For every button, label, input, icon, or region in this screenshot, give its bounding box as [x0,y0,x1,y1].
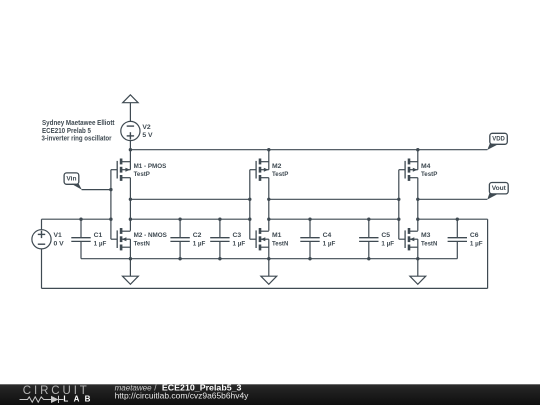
wire: NMOS source/body column to ground rail (stage 2) [268,239,270,259]
wire: gate column (stage 3) [398,170,400,240]
label: C1 [94,232,103,239]
svg-text:1 µF: 1 µF [381,240,394,247]
svg-text:5 V: 5 V [142,132,153,139]
junction: M4 source on VDD rail [416,148,419,151]
junction: upper wire at gate of stage 3 [397,198,400,201]
junction: C3 on source rail [218,257,221,260]
svg-text:CIRCUIT: CIRCUIT [23,385,90,397]
junction: stage1 on source rail [129,257,132,260]
transistor M2 - NMOS (NMOS stage 1) [111,228,130,250]
label: C5 value 1 uF [381,240,394,247]
label: V2 value 5 V [142,132,153,139]
power flag arrow above V2 [123,95,138,103]
voltage source V2 [121,121,140,140]
label: M4 [421,163,431,170]
junction: lower wire at gate of stage 2 [248,218,251,221]
wire: stage3 output to Vout flag [418,198,488,200]
svg-text:1 µF: 1 µF [323,240,336,247]
svg-text:1 µF: 1 µF [233,240,246,247]
ground (stage 1) [123,259,139,285]
wire: V1 top lead / node A to C1 and M1 gate [42,219,111,230]
wire: stage2 output to stage3 gate (upper) [269,198,399,200]
wire: gate column (stage 1) [110,170,112,240]
wire: NMOS source/body column to ground rail (stage 3) [417,239,419,259]
wire: VDD rail [130,149,487,151]
svg-text:M1 - PMOS: M1 - PMOS [134,163,167,170]
wire: feedback bottom rail [42,287,488,289]
svg-text:M3: M3 [421,232,431,239]
footer bar [0,384,540,405]
junction: C4 top [308,218,311,221]
wire: PMOS drain to NMOS drain output column (stage 3) [417,178,419,231]
label: C3 [233,232,242,239]
junction: stage3 on source rail [416,257,419,260]
svg-text:M4: M4 [421,163,431,170]
junction: output column / lower wire (stage 2) [267,218,270,221]
transistor M3 (NMOS stage 3) [399,228,418,250]
capacitor C2 [170,219,189,259]
svg-text:TestN: TestN [421,240,437,247]
wire: Vin to M1 gate [82,189,111,191]
label: C1 value 1 uF [94,240,107,247]
junction: C3 top [218,218,221,221]
CircuitLab logo wordmark LAB [63,394,90,403]
svg-text:M2: M2 [272,163,282,170]
transistor M1 - PMOS (PMOS stage 1) [111,159,130,181]
label: V1 [54,232,63,239]
svg-text:Vin: Vin [66,175,76,182]
label: M1 - PMOS [134,163,167,170]
title text block [42,120,116,143]
label: M2 [272,163,282,170]
wire: feedback right vertical [487,219,489,288]
label: model TestP (stage 1) [134,171,151,178]
wire: gate column (stage 2) [249,170,251,240]
svg-text:C3: C3 [233,232,242,239]
junction: Vin wire on gate column [109,188,112,191]
svg-text:1 µF: 1 µF [193,240,206,247]
junction: output column / upper wire (stage 2) [267,198,270,201]
svg-text:1 µF: 1 µF [94,240,107,247]
label: model TestN (stage 1) [134,240,150,247]
junction: output column / upper wire (stage 1) [129,198,132,201]
label: C6 [470,232,479,239]
label: V1 value 0 V [54,241,65,248]
transistor M2 (PMOS stage 2) [250,159,269,181]
capacitor C1 [71,219,90,259]
svg-text:C1: C1 [94,232,103,239]
svg-text:Sydney Maetawee Elliott: Sydney Maetawee Elliott [42,120,115,127]
wire: PMOS drain to NMOS drain output column (stage 2) [268,178,270,231]
junction: C5 top [367,218,370,221]
label: model TestN (stage 3) [421,240,437,247]
junction: C1 on node A [79,218,82,221]
wire: PMOS drain to NMOS drain output column (stage 1) [129,178,131,231]
wire: stage2 output to stage3 gate (lower, with C4 C5) [269,218,399,220]
junction: M2 source on VDD rail [267,148,270,151]
svg-text:Vout: Vout [492,185,507,192]
net flag Vin [64,173,82,190]
label: C5 [381,232,390,239]
capacitor C4 [300,219,319,259]
svg-text:TestN: TestN [272,240,288,247]
label: C3 value 1 uF [233,240,246,247]
transistor M4 (PMOS stage 3) [399,159,418,181]
wire: PMOS source/body column to VDD (stage 1) [129,150,131,170]
svg-text:1 µF: 1 µF [470,240,483,247]
footer text: url [115,391,250,400]
label: M3 [421,232,431,239]
label: V2 [142,124,151,131]
svg-text:ECE210 Prelab 5: ECE210 Prelab 5 [42,128,91,135]
wire: V1 bottom lead [41,249,43,289]
CircuitLab logo wordmark CIRCUIT [23,385,90,397]
label: M2 - NMOS [134,232,168,239]
junction: C6 top [456,218,459,221]
ground (stage 2) [261,259,277,285]
svg-text:TestP: TestP [134,171,151,178]
svg-text:TestP: TestP [421,171,438,178]
junction: C4 on source rail [308,257,311,260]
wire: NMOS source / ground rail [81,258,457,260]
svg-text:C4: C4 [323,232,332,239]
wire: PMOS source/body column to VDD (stage 2) [268,150,270,170]
junction: output column / lower wire (stage 3) [416,218,419,221]
wire: stage3 output feedback (lower, with C6) [418,218,488,220]
capacitor C5 [359,219,378,259]
label: C4 [323,232,332,239]
junction: V2 / M1 source on VDD rail [129,148,132,151]
net flag VDD [487,133,507,150]
svg-text:TestP: TestP [272,171,289,178]
label: model TestP (stage 3) [421,171,438,178]
label: C2 [193,232,202,239]
junction: stage2 on source rail [267,257,270,260]
svg-text:C6: C6 [470,232,479,239]
junction: upper wire at gate of stage 2 [248,198,251,201]
junction: C2 on source rail [178,257,181,260]
voltage source V1 [32,230,51,249]
junction: C5 on source rail [367,257,370,260]
svg-text:http://circuitlab.com/cvz9a65b: http://circuitlab.com/cvz9a65b6hv4y [115,391,250,400]
junction: output column / lower wire (stage 1) [129,218,132,221]
svg-text:0 V: 0 V [54,241,65,248]
label: model TestN (stage 2) [272,240,288,247]
wire: PMOS source/body column to VDD (stage 3) [417,150,419,170]
svg-text:TestN: TestN [134,240,150,247]
wire: V2 bottom lead [129,141,131,150]
svg-text:M2 - NMOS: M2 - NMOS [134,232,168,239]
svg-text:VDD: VDD [492,136,505,143]
wire: stage1 output to stage2 gate (upper) [130,198,249,200]
svg-text:V1: V1 [54,232,63,239]
wire: stage1 output to stage2 gate (lower, with C2 C3) [130,218,249,220]
junction: output column / upper wire (stage 3) [416,198,419,201]
junction: node A at M1 gate [109,218,112,221]
ground (stage 3) [410,259,426,285]
wire: V2 top lead [129,103,131,122]
net flag Vout [487,183,508,200]
junction: lower wire at gate of stage 3 [397,218,400,221]
label: C4 value 1 uF [323,240,336,247]
label: M1 [272,232,282,239]
svg-text:C5: C5 [381,232,390,239]
transistor M1 (NMOS stage 2) [250,228,269,250]
capacitor C6 [448,219,467,259]
footer text: user / title [115,383,242,392]
junction: C2 top [178,218,181,221]
svg-text:C2: C2 [193,232,202,239]
label: model TestP (stage 2) [272,171,289,178]
CircuitLab logo waveform (resistor + diode) [20,396,64,403]
wire: NMOS source/body column to ground rail (stage 1) [129,239,131,259]
label: C2 value 1 uF [193,240,206,247]
label: C6 value 1 uF [470,240,483,247]
svg-text:M1: M1 [272,232,282,239]
svg-text:V2: V2 [142,124,151,131]
svg-text:3-inverter ring oscillator: 3-inverter ring oscillator [42,136,112,143]
svg-text:LAB: LAB [63,394,90,403]
capacitor C3 [210,219,229,259]
